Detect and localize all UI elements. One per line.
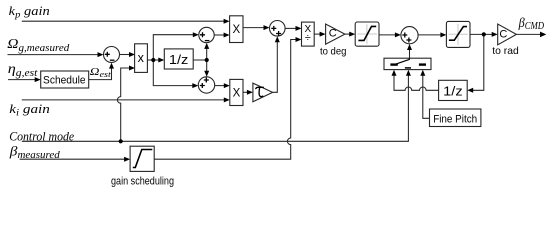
svg-text:Control mode: Control mode: [9, 128, 74, 143]
svg-text:Ωest: Ωest: [90, 67, 112, 79]
svg-text:X: X: [233, 87, 241, 99]
svg-text:kp gain: kp gain: [9, 3, 50, 21]
svg-text:1/z: 1/z: [443, 84, 463, 98]
svg-text:ki gain: ki gain: [9, 101, 50, 119]
svg-text:X: X: [232, 24, 240, 36]
svg-text:to rad: to rad: [492, 45, 519, 57]
svg-text:x: x: [138, 51, 145, 65]
svg-text:C: C: [499, 29, 507, 41]
svg-text:Fine Pitch: Fine Pitch: [433, 113, 477, 125]
svg-text:1/z: 1/z: [169, 53, 189, 67]
svg-text:to deg: to deg: [320, 45, 347, 57]
svg-text:C: C: [329, 28, 337, 40]
svg-text:÷: ÷: [305, 32, 311, 44]
svg-text:gain scheduling: gain scheduling: [111, 175, 174, 187]
svg-text:Schedule: Schedule: [43, 74, 86, 86]
